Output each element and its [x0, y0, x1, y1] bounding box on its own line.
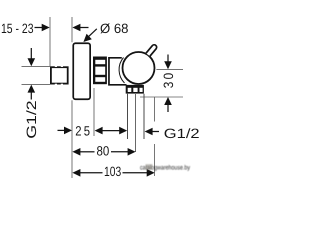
dimension Ø 68 with leader [81, 21, 129, 45]
wire extension line x=154.5 lower [154, 144, 156, 176]
dimension 80 [72, 144, 135, 159]
wire extension line x=72 upper (escutcheon face) [71, 17, 73, 42]
wire extension line y=97 right [140, 96, 183, 98]
svg-text:2 5: 2 5 [75, 123, 90, 138]
wire extension line y=84.4 left [22, 83, 51, 85]
svg-text:G1/2: G1/2 [164, 126, 200, 141]
dimension 103 [72, 164, 154, 179]
watermark [140, 164, 191, 171]
outlet nut [126, 85, 144, 94]
dimension 25 [58, 123, 128, 138]
valve body [109, 58, 127, 85]
wire extension line x=72 lower [71, 100, 73, 178]
svg-text:80: 80 [97, 144, 110, 159]
wire extension line y=66.5 left [22, 65, 51, 67]
wire pipe right edge [143, 94, 145, 139]
wire extension line y=69.3 right [156, 68, 183, 70]
svg-text:Ø 68: Ø 68 [100, 21, 129, 36]
wire extension line x=50 (wall face) [49, 17, 51, 66]
svg-text:3 0: 3 0 [161, 73, 176, 89]
dimension G1/2 left (inlet thread) [24, 48, 39, 139]
dimension 15 - 23 [1, 21, 89, 36]
wire extension line x=154.5 upper [154, 97, 156, 122]
inlet connector nut (G1/2 tailpiece) [51, 66, 68, 85]
dimension 30 right [161, 55, 176, 113]
body flange crescent arc [119, 58, 124, 84]
wire extension line x=94 [93, 88, 95, 136]
svg-text:103: 103 [104, 164, 121, 179]
threaded connection nut (hatched) [93, 57, 107, 85]
escutcheon plate [73, 43, 90, 99]
svg-text:15 - 23: 15 - 23 [1, 21, 34, 36]
dimension G1/2 bottom right (outlet thread) [145, 126, 200, 141]
svg-text:G1/2: G1/2 [24, 100, 39, 139]
knob lever [146, 45, 157, 56]
thermostat knob circle [123, 52, 155, 84]
wire pipe centre line [135, 94, 137, 152]
wire pipe left edge [127, 94, 129, 139]
